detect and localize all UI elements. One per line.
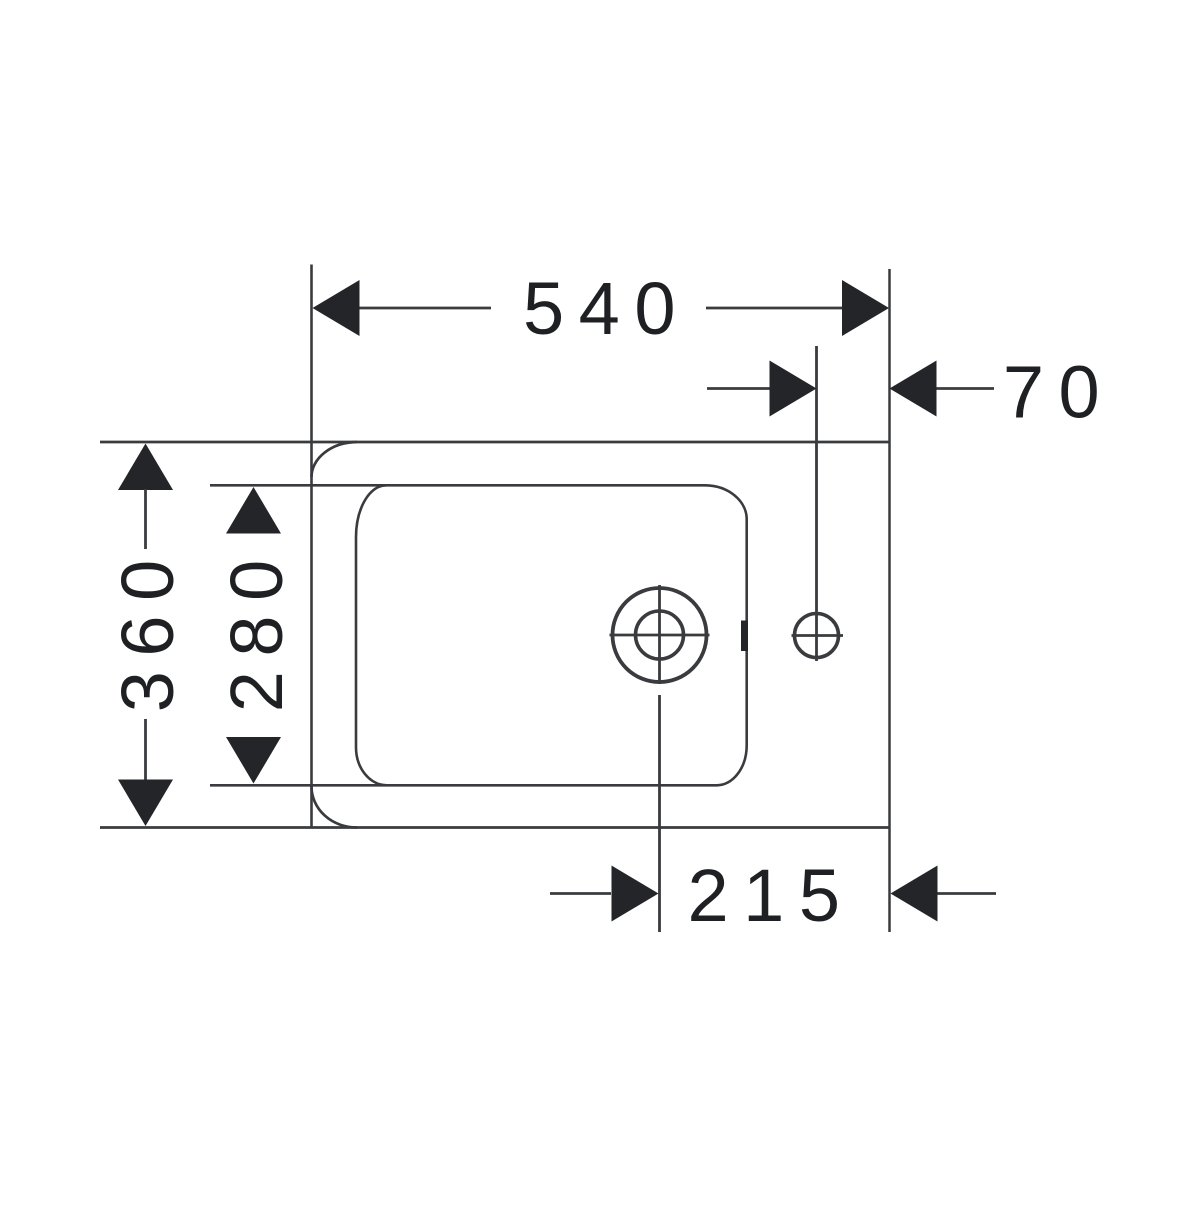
dim 360 top stem	[144, 489, 147, 549]
dim 215 tail line left	[550, 892, 611, 895]
body top edge with 360 extension line	[100, 441, 890, 444]
dim 360 bottom arrow	[118, 780, 173, 827]
dim 360 top arrow	[118, 444, 173, 491]
dim 70 tail line left	[707, 387, 773, 390]
body top-left corner	[312, 442, 358, 477]
dim 70 tail line right	[937, 387, 995, 390]
tap hole circle	[795, 614, 839, 658]
dim 540 line left segment	[358, 307, 491, 310]
dim 215 tail line right	[938, 892, 997, 895]
dim 540 left arrow	[313, 280, 360, 336]
basin outline	[356, 485, 747, 785]
drain crosshair horizontal	[610, 634, 710, 637]
drain outer circle	[613, 588, 707, 682]
basin top edge with 280 extension line	[210, 484, 706, 487]
dim 70 right arrow	[890, 361, 937, 417]
dim 215 right arrow	[891, 866, 938, 922]
svg-text:360: 360	[106, 545, 189, 712]
svg-text:215: 215	[688, 854, 855, 937]
body left edge / 540 extension line	[310, 265, 313, 828]
drain inner circle	[636, 611, 684, 659]
svg-text:70: 70	[1003, 351, 1114, 434]
tap hole crosshair horizontal	[792, 634, 844, 637]
dim 540 right arrow	[842, 280, 889, 336]
svg-text:540: 540	[523, 267, 690, 350]
body bottom edge with 360 extension line	[100, 826, 890, 829]
dim 70 left arrow	[770, 361, 817, 417]
body bottom-left corner	[312, 787, 358, 828]
dim 215 left arrow	[612, 866, 659, 922]
drain crosshair vertical	[658, 585, 661, 684]
wall line / right extension line	[888, 269, 891, 932]
dim 280 top arrow	[226, 487, 281, 534]
overflow mark	[741, 621, 748, 652]
dim 540 line right segment	[706, 307, 843, 310]
basin bottom edge with 280 extension line	[210, 784, 717, 787]
dim 280 bottom arrow	[226, 737, 281, 784]
svg-text:280: 280	[215, 545, 298, 712]
drain centerline extension	[658, 695, 661, 932]
dim 360 bottom stem	[144, 719, 147, 780]
tap hole centerline	[815, 346, 818, 661]
